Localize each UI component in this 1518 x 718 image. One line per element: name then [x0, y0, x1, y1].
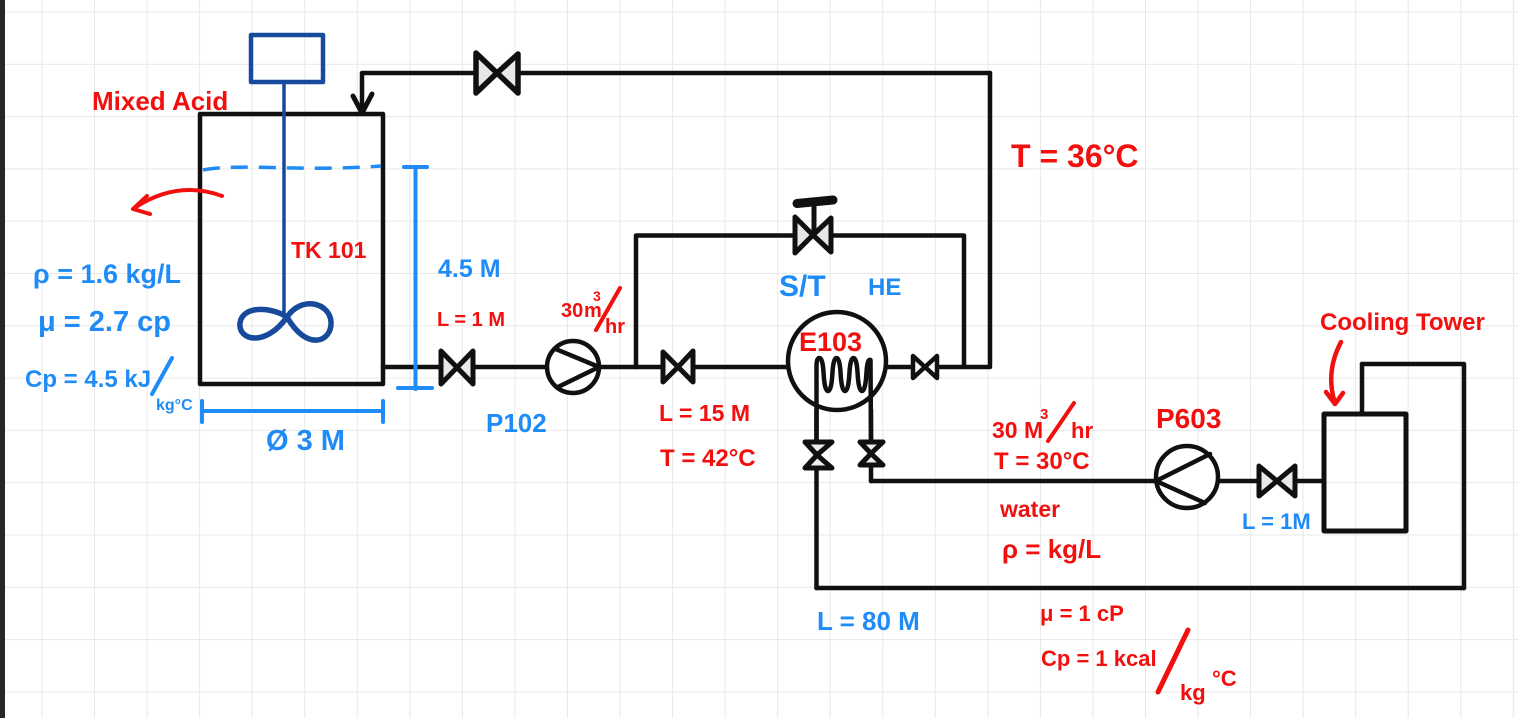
valve V-ct near tower (gray)	[1259, 466, 1295, 496]
tank TK101 shell	[200, 114, 383, 384]
liquid level dashed line	[203, 166, 381, 170]
svg-text:hr: hr	[605, 316, 625, 338]
svg-text:ρ = 1.6 kg/L: ρ = 1.6 kg/L	[33, 259, 181, 289]
svg-text:Ø 3 M: Ø 3 M	[266, 425, 345, 457]
pump P102	[547, 341, 599, 393]
svg-text:3: 3	[1040, 406, 1048, 423]
heat exchanger E103	[788, 312, 886, 442]
svg-text:Mixed Acid: Mixed Acid	[92, 86, 228, 116]
impeller	[240, 304, 331, 340]
valve V2 after pump (white)	[663, 351, 693, 382]
wire E103 right tube down	[869, 410, 874, 442]
left dark edge bar	[0, 0, 5, 718]
svg-text:T = 36°C: T = 36°C	[1011, 138, 1139, 174]
svg-text:water: water	[999, 496, 1060, 522]
control valve CV on bypass	[795, 200, 833, 253]
cooling tower shell	[1324, 414, 1406, 531]
svg-text:30 M: 30 M	[992, 417, 1043, 443]
wire recycle riser	[988, 73, 993, 365]
svg-text:hr: hr	[1071, 418, 1093, 443]
svg-text:P102: P102	[486, 408, 547, 438]
svg-text:Cp = 4.5 kJ: Cp = 4.5 kJ	[25, 366, 151, 393]
svg-text:kg: kg	[1180, 680, 1206, 705]
valve Vv1 vertical under E103 left	[805, 442, 832, 468]
svg-text:μ = 2.7 cp: μ = 2.7 cp	[38, 306, 171, 338]
svg-text:30: 30	[561, 300, 583, 322]
wire bypass loop	[636, 236, 964, 368]
svg-text:Cp = 1 kcal: Cp = 1 kcal	[1041, 646, 1157, 671]
svg-text:ρ = kg/L: ρ = kg/L	[1002, 534, 1101, 564]
svg-text:Cooling Tower: Cooling Tower	[1320, 309, 1485, 336]
label 30 M3/hr right	[992, 406, 1093, 443]
valve V1 tank outlet (gray)	[441, 351, 473, 384]
svg-text:T = 42°C: T = 42°C	[660, 445, 756, 472]
valve V3 after E103 (white)	[913, 356, 937, 378]
wire E103 left tube down	[814, 410, 819, 442]
wire tank outlet pipe	[383, 365, 788, 370]
wire tower chimney	[1360, 364, 1365, 414]
dimension line 4.5M vertical	[398, 167, 432, 389]
valve V-top recycle (gray)	[476, 53, 518, 93]
wire E103 right tube to elbow	[871, 465, 872, 481]
valve Vv2 vertical under E103 right	[860, 442, 883, 465]
agitator shaft	[282, 82, 286, 316]
svg-text:HE: HE	[868, 274, 901, 301]
svg-text:L = 1M: L = 1M	[1242, 509, 1311, 534]
wire pump to tower pipe	[1218, 479, 1324, 484]
label 30 m3/hr left	[561, 288, 625, 338]
wire bottom return line	[817, 586, 1465, 591]
svg-text:TK 101: TK 101	[291, 237, 367, 263]
arrow into tank	[353, 94, 372, 113]
svg-text:L = 15 M: L = 15 M	[659, 400, 750, 426]
wire pipe E103 to riser	[886, 365, 990, 370]
svg-text:μ = 1 cP: μ = 1 cP	[1040, 601, 1124, 626]
svg-text:L = 80 M: L = 80 M	[817, 606, 920, 636]
svg-text:3: 3	[593, 288, 601, 304]
dimension line dia 3M horizontal	[202, 401, 383, 422]
agitator motor box	[240, 35, 331, 340]
svg-text:°C: °C	[1212, 666, 1237, 691]
wire tower top return line	[1362, 364, 1464, 588]
svg-text:kg°C: kg°C	[156, 397, 193, 414]
red arrow to cooling tower	[1326, 342, 1343, 404]
svg-text:E103: E103	[799, 327, 862, 357]
svg-text:T = 30°C: T = 30°C	[994, 448, 1090, 475]
wire recycle top line	[362, 73, 990, 107]
red arrow to liquid level	[133, 190, 222, 214]
wire E103 left tube lower	[814, 468, 819, 588]
svg-text:L = 1 M: L = 1 M	[437, 309, 505, 331]
wire cooling supply pipe	[871, 479, 1156, 484]
svg-text:S/T: S/T	[779, 270, 826, 303]
svg-text:P603: P603	[1156, 403, 1221, 434]
svg-text:4.5 M: 4.5 M	[438, 255, 501, 283]
pump P603	[1156, 446, 1218, 508]
